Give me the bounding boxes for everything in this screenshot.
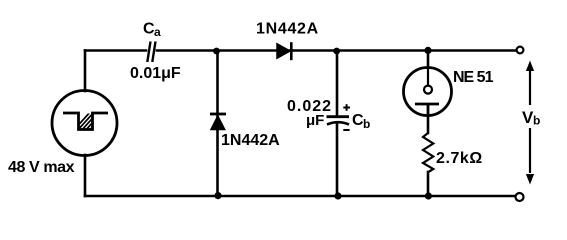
svg-text:1N442A: 1N442A [221, 132, 280, 149]
svg-text:μF: μF [306, 112, 324, 129]
svg-text:NE 51: NE 51 [453, 69, 494, 86]
svg-text:1N442A: 1N442A [256, 21, 319, 38]
svg-text:0.01μF: 0.01μF [130, 65, 181, 82]
svg-text:b: b [363, 117, 370, 131]
svg-text:a: a [154, 25, 161, 39]
svg-text:b: b [533, 114, 540, 128]
svg-text:48 V max: 48 V max [8, 159, 75, 176]
svg-text:2.7kΩ: 2.7kΩ [436, 150, 483, 167]
